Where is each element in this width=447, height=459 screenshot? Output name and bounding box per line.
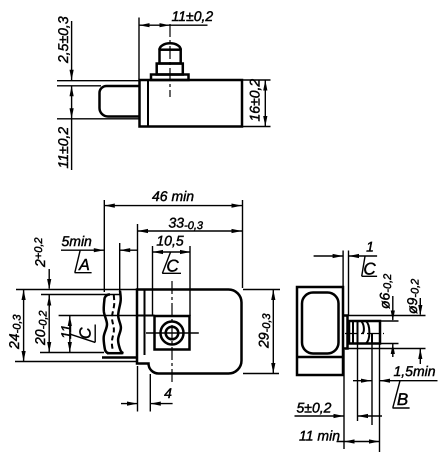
dimension 24-0,3	[6, 290, 26, 362]
dimension d9-0,2	[349, 279, 426, 364]
dimension 1	[314, 239, 378, 316]
front view body outline	[137, 290, 242, 374]
dimension 20-0,2	[32, 295, 51, 353]
extension line lever bottom	[40, 352, 104, 354]
hole vertical centerline	[171, 281, 173, 382]
dimension 4	[121, 366, 173, 412]
dimension d6-0,2	[377, 274, 399, 357]
side view outer outline	[297, 287, 343, 375]
svg-text:10,5: 10,5	[156, 233, 183, 249]
bushing flange	[343, 316, 348, 349]
screw centerline	[345, 333, 384, 335]
datum flag A	[75, 250, 92, 274]
lever outer curve	[104, 295, 110, 354]
side view bottom strip line	[297, 356, 343, 359]
dimension 5min	[61, 233, 138, 295]
screw detail line 2	[357, 321, 359, 344]
datum flag C rotated	[70, 325, 95, 343]
dimension 10,5	[153, 233, 191, 316]
top view body	[140, 80, 243, 127]
datum flag C under 10,5	[162, 252, 181, 276]
svg-text:46 min: 46 min	[152, 188, 194, 204]
extension line body top left	[16, 289, 137, 291]
top view edge line upper	[57, 80, 140, 82]
extension line screw end down	[379, 344, 381, 453]
dimension 46 min	[104, 188, 242, 292]
top view edge line lever top ext	[57, 85, 101, 87]
mounting hole outer circle	[161, 322, 184, 345]
top view lever slot	[100, 86, 140, 117]
svg-text:A: A	[78, 257, 90, 274]
extension line step bottom	[15, 361, 137, 363]
dimension 11±0,2 vertical	[55, 86, 74, 170]
lever top edge	[41, 294, 120, 296]
lever bottom edge	[107, 352, 123, 355]
plunger stem	[160, 50, 181, 64]
dimension 2+0,2	[32, 237, 51, 307]
lever inner curve	[118, 291, 123, 353]
front view housing top line	[59, 315, 155, 317]
dimension 2,5±0,3	[55, 16, 74, 80]
side view inner rounded face	[302, 293, 339, 354]
svg-text:B: B	[397, 390, 408, 409]
dimension 1,5min	[353, 363, 438, 383]
front view housing bottom edge	[102, 356, 137, 359]
mounting boss square	[155, 316, 190, 350]
screw slot arc	[362, 321, 370, 344]
dimension 11±0,2 horizontal	[139, 8, 213, 79]
dimension 11 vertical front	[58, 316, 74, 353]
dimension 33-0,3	[138, 215, 243, 290]
dimension 29-0,3	[243, 290, 280, 374]
dimension 5±0,2	[295, 400, 383, 419]
svg-text:C: C	[363, 260, 376, 279]
svg-text:5min: 5min	[62, 233, 93, 249]
datum flag C side	[362, 256, 377, 278]
plunger dome	[160, 43, 181, 49]
svg-text:C: C	[78, 327, 95, 339]
plunger middle step	[157, 64, 183, 75]
plunger base flange	[151, 75, 189, 81]
svg-text:11 min: 11 min	[299, 428, 340, 444]
svg-text:1,5min: 1,5min	[394, 363, 436, 379]
svg-text:11±0,2: 11±0,2	[172, 8, 214, 24]
svg-text:4: 4	[164, 385, 172, 401]
svg-text:11±0,2: 11±0,2	[55, 127, 71, 169]
hole horizontal centerline	[146, 332, 199, 334]
svg-text:2,5±0,3: 2,5±0,3	[55, 16, 71, 64]
screw detail line 1	[352, 321, 354, 344]
svg-text:C: C	[166, 257, 179, 276]
extension line body right down	[343, 350, 345, 449]
lever middle dashed curve	[112, 295, 114, 352]
extension line screw inner down	[371, 344, 373, 426]
datum flag B	[393, 381, 410, 409]
dimension 11 min	[299, 428, 380, 444]
plunger centerline	[169, 24, 171, 97]
svg-text:11: 11	[58, 324, 74, 339]
front view inner wall	[144, 290, 146, 356]
bushing screw body	[349, 321, 380, 344]
top view front wall line	[147, 80, 149, 127]
svg-text:16±0,2: 16±0,2	[247, 79, 263, 122]
svg-text:5±0,2: 5±0,2	[297, 400, 332, 416]
svg-text:1: 1	[366, 239, 374, 255]
screw detail line 3	[371, 334, 373, 344]
extension line screw step down	[357, 345, 359, 422]
top view edge line lower	[57, 118, 140, 120]
mounting hole inner circle	[166, 327, 179, 340]
dimension 16±0,2	[243, 79, 271, 127]
